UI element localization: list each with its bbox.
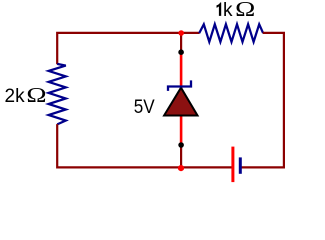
label 1kOhm digit 1 (drawn, no foot serif) — [217, 3, 222, 16]
zener diode D1 triangle (anode) — [164, 88, 197, 116]
wire bottom-left L (left branch along bottom to battery) — [57, 124, 232, 167]
svg-text:k: k — [223, 0, 233, 21]
resistor R2 1kOhm (horizontal zigzag) — [199, 24, 263, 42]
node junction bottom — [178, 165, 184, 171]
junction dot bottom — [178, 142, 184, 148]
wire right L (resistor to right side down to battery) — [241, 33, 284, 168]
battery V1 short plate (-) — [239, 157, 242, 173]
svg-text:Ω: Ω — [235, 0, 255, 21]
svg-text:Ω: Ω — [26, 84, 46, 107]
zener diode D1 cathode bar (blue Z bar) — [168, 80, 191, 91]
battery V1 long plate (+) — [231, 147, 234, 183]
svg-text:2k: 2k — [5, 86, 26, 107]
resistor R1 2kOhm (vertical zigzag) — [49, 64, 66, 125]
svg-text:5V: 5V — [134, 96, 155, 117]
wire center stub top (node to junction dot) — [180, 33, 182, 52]
node junction top — [178, 30, 184, 36]
wire center branch (bright red through zener) — [180, 52, 183, 145]
wire top-left L (left branch to top node) — [57, 33, 199, 64]
wire center stub bottom (junction dot to bottom node) — [180, 145, 182, 167]
junction dot top — [178, 49, 184, 55]
